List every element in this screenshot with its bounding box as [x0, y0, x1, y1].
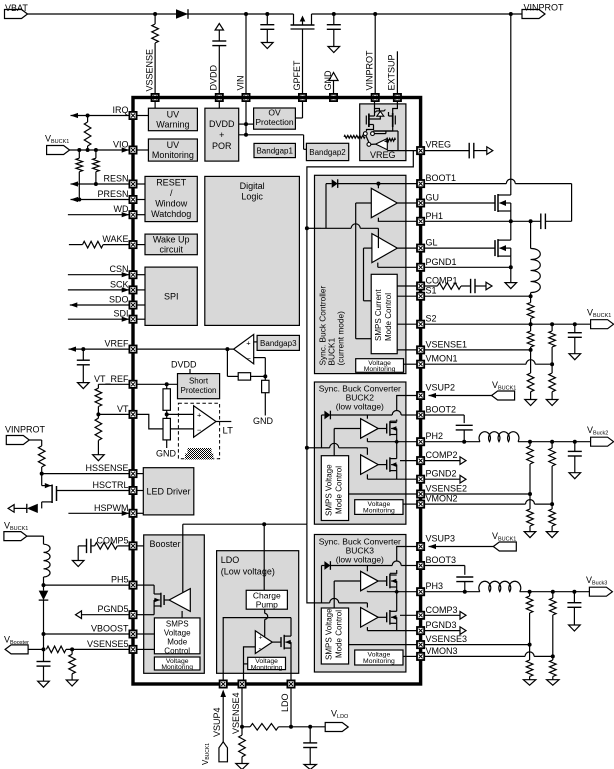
driver BUCK2 low [361, 455, 379, 475]
svg-text:VSENSE4: VSENSE4 [231, 692, 241, 734]
net VBUCK1 flag VSUP3 [492, 531, 516, 551]
svg-text:COMP5: COMP5 [96, 535, 128, 545]
pin S2 [417, 321, 424, 328]
pin VIN [242, 94, 249, 101]
svg-text:RESN: RESN [103, 174, 128, 184]
wire EXTSUP into VREG [393, 101, 398, 113]
svg-text:GND: GND [253, 416, 274, 426]
label CSN [109, 264, 128, 274]
pin VSUP2 [417, 392, 424, 399]
wire S1 external [425, 294, 533, 298]
wire RESN [71, 181, 130, 186]
resistor BUCK1 fb bottom A [525, 350, 537, 406]
label VSUP3 [426, 534, 456, 544]
svg-text:SPI: SPI [164, 292, 179, 302]
wire VREF left [69, 347, 130, 352]
wire VSUP3 internal [390, 547, 417, 574]
svg-text:LDO: LDO [280, 693, 290, 712]
inductor booster [44, 544, 51, 585]
label HSPWM [94, 503, 129, 513]
wire PH3 external [425, 591, 480, 593]
wire T1 bottom to PH1 [378, 218, 417, 222]
RC network COMP5 [72, 539, 129, 567]
wire COMP3 internal [400, 614, 417, 616]
wire VINPROT to resistor [29, 440, 41, 446]
wire PH1 external [425, 211, 541, 223]
wire VREG ext cap [425, 143, 493, 159]
wire booster internal stubs [144, 585, 155, 649]
wire PRESN [71, 197, 130, 202]
transistor LDO FET [272, 635, 291, 683]
svg-text:BOOT2: BOOT2 [426, 405, 457, 415]
resistor BUCK2 fb top B [549, 442, 556, 506]
svg-text:VSSENSE: VSSENSE [145, 49, 155, 92]
junction PH5 [42, 583, 46, 587]
net VBUCK1 flag S2 [587, 308, 614, 329]
svg-text:(current mode): (current mode) [336, 311, 346, 366]
pin DVDD [216, 94, 223, 101]
svg-text:Bandgap3: Bandgap3 [260, 339, 297, 348]
svg-text:DVDD: DVDD [171, 360, 197, 370]
label VSENSE1 [426, 339, 468, 349]
svg-text:PGND3: PGND3 [426, 620, 457, 630]
capacitor boot BUCK2 [456, 425, 473, 443]
thermal sensor hatched [185, 448, 213, 460]
wire VIN internal [239, 101, 307, 149]
resistor LDO divider bottom [236, 727, 248, 769]
pin VT_REF [129, 381, 136, 388]
svg-text:GL: GL [426, 238, 438, 248]
svg-text:COMP2: COMP2 [426, 450, 458, 460]
label VMON2 [426, 494, 458, 504]
svg-text:VINPROT: VINPROT [5, 425, 46, 435]
label PH2 [426, 431, 444, 441]
pin VSUP3 [417, 543, 424, 550]
svg-text:SDI: SDI [113, 309, 128, 319]
capacitor VBAT bypass 2 [327, 12, 341, 53]
svg-text:PGND5: PGND5 [97, 604, 128, 614]
wire VINPROT into VREG [375, 101, 380, 111]
capacitor BUCK1 out [568, 324, 582, 360]
pin HSSENSE [129, 470, 143, 477]
capacitor LDO out [303, 727, 317, 769]
svg-text:SDO: SDO [109, 295, 129, 305]
svg-text:SCK: SCK [110, 279, 129, 289]
pin PRESN [129, 196, 145, 203]
wire PH2 external [425, 441, 481, 443]
label PGND1 [426, 257, 457, 267]
wire WD [68, 212, 129, 217]
pin GND [330, 94, 337, 101]
svg-text:HSPWM: HSPWM [94, 503, 129, 513]
label WAKE [102, 234, 128, 244]
wire GPFET to OV Protection [295, 101, 302, 118]
pin VREG [417, 147, 424, 154]
wire BUCK3 T1 input [334, 581, 360, 608]
wire S1 internal [397, 295, 416, 297]
svg-text:−: − [197, 426, 202, 435]
resistor LDO divider top [242, 724, 325, 731]
resistor BUCK1 fb bottom B [546, 364, 558, 405]
svg-text:VSUP4: VSUP4 [212, 707, 222, 737]
transistor BUCK2 HS FET [378, 421, 397, 436]
svg-text:VMON1: VMON1 [426, 354, 458, 364]
label VBUCK1 bottom [201, 743, 211, 765]
transistor GPFET external [291, 14, 315, 94]
pin WAKE [129, 241, 145, 248]
comparator LT box dashed [178, 403, 219, 459]
svg-text:Control: Control [164, 646, 190, 655]
svg-text:Booster: Booster [150, 539, 181, 549]
svg-text:VMON3: VMON3 [426, 646, 458, 656]
svg-text:GPFET: GPFET [292, 60, 302, 91]
block Voltage Monitoring BUCK3 [355, 650, 403, 665]
label SDO [109, 295, 129, 305]
driver BUCK1 low [372, 234, 397, 263]
svg-text:Protection: Protection [255, 117, 294, 127]
pin PH1 [417, 218, 424, 225]
wire rail to Booster [183, 524, 307, 535]
wire VT_REF [98, 382, 177, 386]
wire BUCK3 LS source to PGND3 [367, 623, 416, 630]
label LDO pin [280, 693, 290, 712]
svg-text:WAKE: WAKE [102, 234, 128, 244]
RC COMP1 [425, 279, 493, 293]
arrow COMP2 external [425, 457, 467, 465]
pin CSN [129, 271, 145, 278]
block Sync Buck Converter BUCK3 [314, 535, 406, 673]
wire charge pump to amp [265, 609, 268, 636]
label PH3 [426, 581, 444, 591]
resistor divider VT upper [163, 384, 194, 416]
wire HSPWM [68, 511, 129, 516]
capacitor booster out [37, 649, 51, 687]
wire DVDD to POR [218, 101, 220, 108]
block SMPS Voltage Mode Control booster [154, 618, 200, 655]
svg-text:EXTSUP: EXTSUP [387, 54, 397, 90]
svg-text:VREF: VREF [104, 339, 129, 349]
pin VBOOST [129, 630, 143, 637]
resistor VSENSE5 series [46, 646, 129, 653]
wire VINPROT drop [373, 12, 377, 94]
block Bandgap1 [254, 143, 295, 157]
label BOOT2 [426, 405, 457, 415]
block Charge Pump [246, 590, 287, 609]
label GL [426, 238, 438, 248]
label GPFET [292, 60, 302, 91]
svg-text:Mode Control: Mode Control [335, 466, 344, 514]
block SMPS Current Mode Control [371, 274, 397, 353]
block Wake Up circuit [145, 234, 197, 255]
svg-text:Monitoring: Monitoring [364, 366, 396, 373]
label GU [426, 193, 440, 203]
wire VBAT rail [28, 13, 523, 15]
arrow COMP3 external [425, 612, 467, 620]
block LDO [217, 551, 299, 674]
svg-text:VBAT: VBAT [5, 3, 28, 13]
pin EXTSUP [394, 94, 401, 101]
pin VSSENSE [152, 94, 159, 101]
wire SCK [68, 287, 129, 292]
resistor VSENSE5 shunt [66, 649, 78, 686]
label VIO [113, 140, 129, 150]
svg-text:VBOOST: VBOOST [91, 624, 129, 634]
svg-text:Bandgap2: Bandgap2 [309, 148, 346, 157]
net VBuck3 flag [586, 575, 612, 596]
label VINPROT top [365, 50, 375, 91]
wire LT output [216, 422, 233, 437]
svg-text:VREG: VREG [370, 150, 396, 160]
svg-text:VREG: VREG [426, 140, 452, 150]
net VBUCK1 flag VIO [45, 134, 70, 155]
wire PGND5 [76, 611, 130, 619]
wire VMON1 external [425, 360, 553, 365]
block UV Warning [148, 108, 197, 131]
wire PGND1 external [425, 265, 517, 288]
arrow PGND3 external [425, 627, 467, 635]
resistor WAKE series [69, 241, 129, 248]
block Digital Logic [205, 176, 300, 325]
label VMON3 [426, 646, 458, 656]
resistor Bandgap3 fb horizontal [238, 373, 250, 380]
wire charge pump feed internal [263, 551, 265, 591]
label GND VT divider [156, 449, 177, 459]
resistor BUCK2 fb bottom B [546, 504, 558, 537]
pin PGND3 [417, 627, 424, 634]
driver BUCK3 low [361, 608, 379, 628]
diode BUCK3 boot [322, 561, 331, 603]
capacitor boot BUCK3 [456, 577, 473, 594]
label SDI [113, 309, 128, 319]
wire BOOT3 external [425, 566, 465, 575]
pin VSENSE3 [417, 641, 424, 648]
pin PGND2 [417, 476, 424, 483]
wire SDO [70, 302, 129, 307]
label DVDD [209, 64, 219, 90]
label VT [117, 404, 129, 414]
pin HSCTRL [129, 487, 143, 494]
block OV Protection [254, 108, 296, 130]
svg-text:WD: WD [114, 204, 129, 214]
svg-text:PH2: PH2 [426, 431, 444, 441]
transistor HS PMOS [42, 474, 130, 509]
pin SDO [129, 301, 145, 308]
svg-text:Window: Window [155, 199, 188, 209]
svg-text:SMPS Voltage: SMPS Voltage [325, 608, 334, 660]
resistor VIO-PRESN [76, 150, 83, 200]
block RESET/Window Watchdog [145, 176, 197, 221]
wire VINPROT to BUCK1 FET [510, 14, 512, 195]
wire VREF internal [137, 347, 234, 351]
driver BUCK3 high [361, 571, 379, 591]
pin VIO [129, 146, 148, 153]
svg-text:(low voltage): (low voltage) [336, 554, 384, 564]
svg-text:(low voltage): (low voltage) [336, 402, 384, 412]
svg-text:S1: S1 [426, 286, 437, 296]
svg-text:VSENSE1: VSENSE1 [426, 339, 468, 349]
diode zener VREG [375, 110, 385, 117]
driver BUCK1 high [371, 188, 397, 217]
arrow PGND2 external [425, 475, 467, 483]
pin VSENSE2 [417, 490, 424, 497]
svg-text:Mode Control: Mode Control [384, 293, 393, 341]
wire BUCK2 LS drain [396, 442, 398, 459]
resistor divider VT lower [163, 414, 170, 448]
pin WD [129, 211, 145, 218]
block DVDD+POR [205, 108, 239, 161]
resistor BUCK3 fb top B [550, 592, 557, 659]
wire IRQ [71, 113, 130, 118]
driver BUCK2 high [361, 419, 379, 439]
wire VSUP3 external [429, 544, 495, 549]
svg-text:(Low voltage): (Low voltage) [221, 567, 275, 577]
label S1 [426, 286, 437, 296]
label PGND5 [97, 604, 128, 614]
wire BOOT1 internal [338, 182, 417, 189]
pin VT [129, 411, 136, 418]
resistor HS sense [38, 446, 45, 476]
svg-text:COMP1: COMP1 [426, 276, 458, 286]
svg-text:LT: LT [223, 426, 234, 437]
diode booster [39, 585, 49, 634]
wire GL [397, 247, 416, 249]
wire PH2 internal [367, 438, 416, 442]
block Bandgap2 [306, 143, 348, 160]
svg-text:UV: UV [167, 110, 180, 120]
label PGND3 [426, 620, 457, 630]
label WD [114, 204, 129, 214]
label VSENSE3 [426, 634, 468, 644]
net VINPROT flag left [5, 425, 46, 445]
wire VT [98, 414, 193, 429]
pin GU [417, 199, 424, 206]
svg-text:S2: S2 [426, 314, 437, 324]
label GND bandgap3 [253, 416, 274, 426]
capacitor VBAT bypass 1 [260, 12, 274, 49]
op-amp LDO [255, 631, 272, 654]
pin PGND5 [129, 611, 143, 618]
wire VREG feed rail [307, 150, 413, 603]
svg-text:GND: GND [156, 449, 177, 459]
capacitor BUCK2 out [568, 442, 582, 479]
junction VBOOST [42, 632, 46, 636]
svg-text:VT_REF: VT_REF [94, 374, 129, 384]
label DVDD net [171, 360, 197, 374]
svg-text:Watchdog: Watchdog [151, 209, 191, 219]
label S2 [426, 314, 437, 324]
wire VSENSE3 internal [349, 644, 417, 646]
svg-text:VSUP2: VSUP2 [426, 383, 456, 393]
svg-text:Monitoring: Monitoring [161, 664, 193, 671]
pin PGND1 [417, 264, 424, 271]
label BOOT1 [426, 173, 457, 183]
pin BOOT1 [417, 180, 424, 187]
block Voltage Monitoring BUCK2 [355, 500, 403, 515]
svg-text:+: + [197, 410, 202, 419]
pin VMON2 [417, 501, 424, 508]
wire PH2 to flag [518, 440, 591, 444]
inductor BUCK2 [479, 432, 519, 442]
label COMP5 [96, 535, 128, 545]
comparator LT [194, 406, 216, 437]
wire VREG output [387, 150, 416, 152]
wire BUCK3 LS drain [396, 592, 398, 612]
block SPI [145, 267, 197, 325]
block LED Driver [143, 468, 194, 515]
svg-text:PGND2: PGND2 [426, 469, 457, 479]
svg-text:CSN: CSN [109, 264, 128, 274]
svg-text:LDO: LDO [221, 555, 240, 565]
wire LDO minus input [244, 647, 256, 682]
label VT_REF [94, 374, 129, 384]
svg-text:IRQ: IRQ [112, 105, 128, 115]
amplifier booster [169, 589, 190, 612]
svg-text:RESET: RESET [156, 177, 187, 187]
svg-text:+: + [259, 635, 263, 642]
wire VMON2 internal [403, 503, 417, 505]
junction VINPROT/VBAT right [509, 12, 513, 16]
svg-text:+: + [246, 338, 251, 347]
wire VSUP4 external [219, 690, 228, 762]
svg-text:VSENSE2: VSENSE2 [426, 484, 468, 494]
pin VSENSE4 [238, 680, 245, 687]
wire VIN drop [245, 14, 247, 94]
wire VMON1 internal [404, 363, 417, 365]
block VREG [360, 104, 406, 161]
diode LED string [8, 504, 38, 513]
label PRESN [97, 189, 128, 199]
ground GND pin arrow [329, 73, 338, 94]
wire VSUP4 internal [223, 618, 291, 683]
transistor BUCK3 HS FET [378, 574, 397, 589]
pin GPFET [299, 94, 306, 101]
pin BOOT2 [417, 411, 424, 418]
resistor VSSENSE pull [152, 14, 159, 94]
svg-text:DVDD: DVDD [209, 64, 219, 90]
pin VINPROT [372, 94, 379, 101]
svg-text:Bandgap1: Bandgap1 [256, 147, 293, 156]
resistor BUCK1 sense [527, 296, 534, 324]
wire VBooster [28, 648, 43, 650]
label VSENSE5 [87, 639, 129, 649]
transistor booster FET [154, 585, 169, 615]
resistor VT_REF ext lower [93, 414, 105, 460]
resistor Bandgap3 fb vertical [262, 376, 269, 415]
wire DVDD drop [212, 24, 226, 94]
svg-text:Wake Up: Wake Up [153, 235, 190, 245]
label VSUP4 [212, 707, 222, 737]
wire VBOOST [44, 633, 130, 635]
wire T2 input [364, 248, 372, 301]
label PH5 [111, 575, 129, 585]
svg-text:VINPROT: VINPROT [365, 50, 375, 91]
wire T1 input [356, 203, 372, 339]
svg-text:PH5: PH5 [111, 575, 129, 585]
net VBUCK1 flag booster [4, 521, 28, 541]
wire EXTSUP stub [396, 51, 398, 93]
svg-text:Monitoring: Monitoring [152, 150, 194, 160]
pin IRQ [129, 112, 148, 119]
label BOOT3 [426, 555, 457, 565]
label VIN [236, 75, 246, 90]
svg-text:−: − [247, 354, 252, 363]
net VBUCK1 flag VSUP2 [492, 380, 517, 400]
block Bandgap3 [257, 335, 299, 350]
pin COMP1 [417, 282, 424, 289]
svg-text:SMPS Voltage: SMPS Voltage [325, 464, 334, 516]
svg-text:UV: UV [167, 140, 180, 150]
svg-text:LED Driver: LED Driver [146, 486, 190, 496]
